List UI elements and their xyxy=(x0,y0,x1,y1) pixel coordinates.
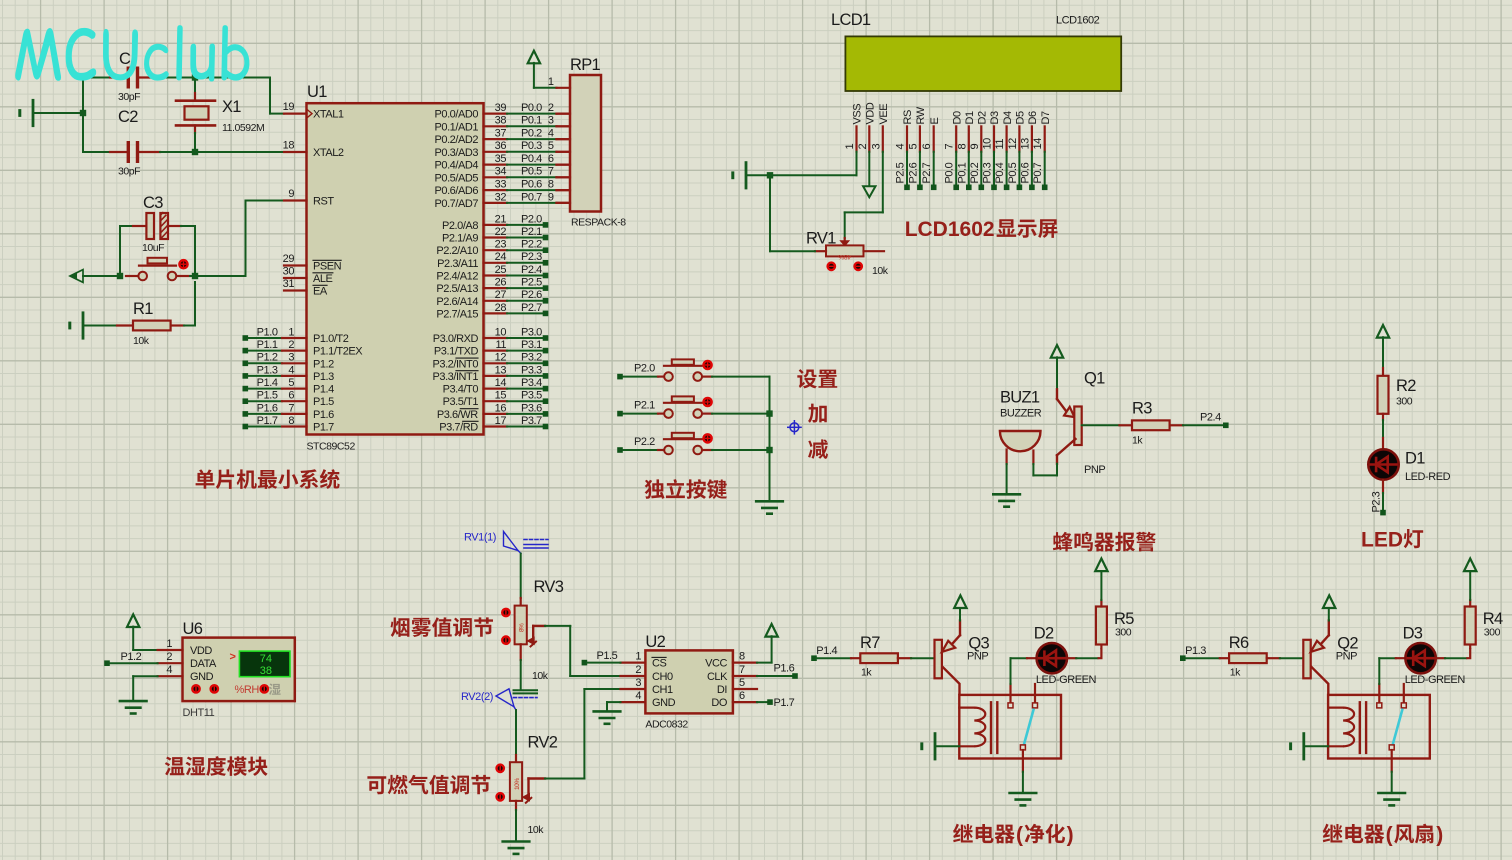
svg-text:27: 27 xyxy=(495,289,507,301)
wire P1.5 to U2 CS xyxy=(582,660,588,666)
svg-text:4: 4 xyxy=(548,128,554,140)
svg-text:P2.6: P2.6 xyxy=(907,162,919,183)
label jian xyxy=(808,439,828,459)
wire node E to RST riser xyxy=(195,275,246,277)
svg-text:1k: 1k xyxy=(861,667,872,679)
svg-text:P3.5/T1: P3.5/T1 xyxy=(443,396,479,408)
svg-text:Q1: Q1 xyxy=(1084,370,1105,388)
transistor Q3 PNP xyxy=(935,640,942,679)
resistor R5 300 xyxy=(1100,645,1102,649)
svg-text:30pF: 30pF xyxy=(118,91,140,103)
Q2 collector to relay xyxy=(1311,666,1329,695)
svg-text:P2.3/A11: P2.3/A11 xyxy=(437,258,478,270)
svg-text:VSS: VSS xyxy=(852,104,864,125)
svg-text:P2.1: P2.1 xyxy=(634,400,655,412)
svg-text:P3.0: P3.0 xyxy=(521,326,542,338)
svg-text:6: 6 xyxy=(548,153,554,165)
power arrow for U6 xyxy=(127,614,139,627)
wire R2 to D1 xyxy=(1382,420,1384,438)
RV3 interactive dots xyxy=(502,609,509,616)
svg-text:P2.5: P2.5 xyxy=(521,277,542,289)
ground GND1 xyxy=(32,100,35,125)
svg-text:C2: C2 xyxy=(118,108,138,126)
svg-text:EA: EA xyxy=(313,286,328,298)
svg-text:33: 33 xyxy=(495,179,507,191)
svg-text:4: 4 xyxy=(635,690,641,702)
wire R7 to Q3 base xyxy=(911,657,935,659)
svg-text:P0.6: P0.6 xyxy=(521,179,542,191)
svg-text:P1.3: P1.3 xyxy=(257,364,278,376)
wire P1.4 input xyxy=(811,655,817,661)
wire node B to XTAL1 corner xyxy=(195,77,270,79)
svg-text:2: 2 xyxy=(166,651,172,663)
label shezhi xyxy=(797,369,837,388)
svg-text:P0.7/AD7: P0.7/AD7 xyxy=(435,198,479,210)
svg-text:10k: 10k xyxy=(133,335,150,347)
svg-text:10: 10 xyxy=(495,326,507,338)
U1 pin 18 XTAL2 xyxy=(284,151,307,153)
RV1 interactive dots xyxy=(828,263,835,270)
svg-text:P2.4/A12: P2.4/A12 xyxy=(436,271,478,283)
svg-text:10k: 10k xyxy=(872,265,889,277)
svg-text:P0.3: P0.3 xyxy=(521,140,542,152)
push button P2.1 xyxy=(617,411,623,417)
IC U1 STC89C52 body xyxy=(307,103,484,434)
svg-text:2: 2 xyxy=(635,664,641,676)
svg-text:18: 18 xyxy=(283,139,295,151)
svg-text:1: 1 xyxy=(288,326,294,338)
relay box xyxy=(959,695,1061,759)
svg-text:RP1: RP1 xyxy=(570,56,601,74)
svg-text:X1: X1 xyxy=(222,98,241,116)
svg-text:12: 12 xyxy=(1007,138,1019,150)
svg-text:21: 21 xyxy=(495,213,507,225)
svg-text:P3.4: P3.4 xyxy=(521,377,542,389)
power arrow for R2 xyxy=(1377,325,1389,338)
wire U6 GND to ground xyxy=(133,675,157,677)
wire gnd1 to node A xyxy=(33,112,83,114)
svg-text:P1.4: P1.4 xyxy=(257,377,278,389)
label yanwuzhi tiaojie xyxy=(391,617,493,637)
relay common to ground xyxy=(1022,750,1024,772)
svg-text:P3.2: P3.2 xyxy=(521,352,542,364)
svg-text:P3.0/RXD: P3.0/RXD xyxy=(433,333,479,345)
svg-text:RST: RST xyxy=(313,196,334,208)
wire P1.2 to U6 DATA xyxy=(104,660,110,666)
svg-text:GND: GND xyxy=(652,697,676,709)
svg-text:P2.1: P2.1 xyxy=(521,226,542,238)
svg-text:P1.6: P1.6 xyxy=(257,402,278,414)
svg-text:P3.3: P3.3 xyxy=(521,364,542,376)
svg-text:P2.6/A14: P2.6/A14 xyxy=(436,296,478,308)
svg-text:P1.0: P1.0 xyxy=(257,326,278,338)
svg-text:U6: U6 xyxy=(183,620,203,638)
svg-text:P1.4: P1.4 xyxy=(816,645,837,657)
svg-text:2: 2 xyxy=(288,339,294,351)
relay common to ground xyxy=(1391,750,1393,772)
svg-text:ADC0832: ADC0832 xyxy=(645,719,688,731)
svg-text:4: 4 xyxy=(895,144,907,150)
U2 pin 6 DO xyxy=(733,701,757,703)
LCD VDD wire to power xyxy=(868,152,870,187)
U6 display xyxy=(239,651,290,677)
svg-text:P3.2/: P3.2/ xyxy=(433,358,458,370)
svg-text:U2: U2 xyxy=(645,633,665,651)
wire D2 to R5 xyxy=(1067,657,1076,659)
svg-text:38: 38 xyxy=(260,665,272,677)
label duli anjian xyxy=(645,479,727,499)
node E junction xyxy=(192,273,198,279)
wire top rail to C1 xyxy=(83,77,110,79)
capacitor C1 xyxy=(110,76,127,78)
wire RV2 bottom to ground xyxy=(515,810,517,840)
label jia xyxy=(808,404,827,423)
U2 pin 7 CLK xyxy=(733,675,757,677)
RP1 pins 2-9 xyxy=(557,112,571,114)
svg-text:P2.0: P2.0 xyxy=(634,363,655,375)
svg-text:6: 6 xyxy=(921,144,933,150)
buzzer pins xyxy=(1005,450,1007,465)
svg-text:P0.2: P0.2 xyxy=(969,162,981,183)
RP1 pin 1 xyxy=(557,87,571,89)
svg-text:32: 32 xyxy=(495,191,507,203)
svg-text:%RH: %RH xyxy=(235,684,260,696)
svg-text:P2.7: P2.7 xyxy=(521,302,542,314)
svg-text:P2.4: P2.4 xyxy=(521,264,542,276)
svg-text:8: 8 xyxy=(739,651,745,663)
svg-text:3: 3 xyxy=(548,115,554,127)
U1 pin 30 ALE xyxy=(284,277,307,279)
U6 pin 2 DATA xyxy=(158,662,183,664)
push button P2.0 xyxy=(617,374,623,380)
label keranqizhi tiaojie xyxy=(367,775,490,795)
svg-text:36: 36 xyxy=(495,140,507,152)
buttons common wire xyxy=(769,377,771,502)
svg-text:CH0: CH0 xyxy=(652,671,673,683)
svg-text:RV2: RV2 xyxy=(528,734,558,752)
svg-text:PNP: PNP xyxy=(1336,651,1357,663)
svg-text:3: 3 xyxy=(870,144,882,150)
potentiometer RV1 10k xyxy=(844,238,846,245)
svg-text:8: 8 xyxy=(548,179,554,191)
origin marker xyxy=(787,420,802,435)
svg-text:28: 28 xyxy=(495,302,507,314)
wire U2 DO to P1.7 xyxy=(757,701,768,703)
crystal X1 xyxy=(194,78,196,94)
svg-text:P2.3: P2.3 xyxy=(521,251,542,263)
RV3 wiper xyxy=(532,626,534,641)
svg-text:5: 5 xyxy=(548,140,554,152)
svg-text:D3: D3 xyxy=(1403,625,1423,643)
svg-text:10uF: 10uF xyxy=(142,242,164,254)
svg-text:P1.7: P1.7 xyxy=(774,697,795,709)
svg-text:P1.5: P1.5 xyxy=(597,650,618,662)
svg-text:LED-GREEN: LED-GREEN xyxy=(1405,674,1466,686)
power arrow for R4 xyxy=(1469,571,1471,600)
wire C2 to node C xyxy=(160,151,195,153)
svg-text:P2.7: P2.7 xyxy=(921,162,933,183)
svg-text:WR: WR xyxy=(460,409,478,421)
svg-text:ALE: ALE xyxy=(313,273,333,285)
svg-text:P0.3: P0.3 xyxy=(982,162,994,183)
svg-text:P1.1: P1.1 xyxy=(257,339,278,351)
relay coil xyxy=(959,706,974,708)
svg-text:P1.6: P1.6 xyxy=(313,409,334,421)
buzzer BUZ1 xyxy=(1000,431,1041,451)
U1 pin 19 XTAL1 xyxy=(284,112,307,114)
svg-text:R7: R7 xyxy=(860,634,880,652)
U2 pin 1 CS xyxy=(621,661,646,663)
transistor Q2 PNP xyxy=(1303,640,1310,679)
potentiometer RV2 10k xyxy=(510,762,522,801)
U6 pin 1 VDD xyxy=(158,649,183,651)
svg-text:P0.4: P0.4 xyxy=(521,153,542,165)
svg-text:6: 6 xyxy=(739,690,745,702)
svg-text:P2.1/A9: P2.1/A9 xyxy=(442,233,478,245)
svg-text:6: 6 xyxy=(288,390,294,402)
svg-text:XTAL2: XTAL2 xyxy=(313,147,344,159)
svg-text:35: 35 xyxy=(495,153,507,165)
svg-text:P3.7/: P3.7/ xyxy=(439,422,464,434)
svg-text:PSEN: PSEN xyxy=(313,261,342,273)
wire C3 left down xyxy=(119,226,121,276)
svg-text:48%: 48% xyxy=(838,253,851,260)
svg-text:P3.5: P3.5 xyxy=(521,390,542,402)
U6 pin 4 GND xyxy=(158,675,183,677)
svg-text:U1: U1 xyxy=(307,83,327,101)
U1 pin 29 PSEN xyxy=(284,264,307,266)
MCUclub logo xyxy=(15,12,249,81)
svg-text:P3.1/TXD: P3.1/TXD xyxy=(434,346,479,358)
svg-text:(: ( xyxy=(1386,824,1393,847)
svg-text:9: 9 xyxy=(288,188,294,200)
svg-text:7: 7 xyxy=(548,166,554,178)
wire terminal to RV3 xyxy=(520,554,522,599)
svg-text:D2: D2 xyxy=(977,111,989,124)
capacitor C2 xyxy=(83,151,110,153)
svg-text:C3: C3 xyxy=(143,194,163,212)
svg-text:22: 22 xyxy=(495,226,507,238)
relay coil ground wire xyxy=(934,734,937,759)
power arrow for Q3 xyxy=(959,607,961,621)
svg-text:P2.2/A10: P2.2/A10 xyxy=(436,245,478,257)
svg-text:2: 2 xyxy=(857,144,869,150)
RV2 interactive dots xyxy=(497,765,504,772)
svg-text:INT0: INT0 xyxy=(456,358,478,370)
svg-text:): ) xyxy=(1436,824,1443,847)
svg-text:1: 1 xyxy=(548,76,554,88)
relay core xyxy=(1359,702,1361,753)
svg-text:300: 300 xyxy=(1396,396,1413,408)
svg-text:11: 11 xyxy=(495,339,506,351)
IC U2 ADC0832 body xyxy=(645,650,733,713)
wire node C to XTAL2 pin xyxy=(195,151,284,153)
svg-text:10k: 10k xyxy=(528,824,545,836)
resistor pack RP1 RESPACK-8 xyxy=(570,75,601,212)
svg-text:P0.2/AD2: P0.2/AD2 xyxy=(435,134,479,146)
svg-text:14: 14 xyxy=(1032,138,1044,150)
svg-text:P1.2: P1.2 xyxy=(257,352,278,364)
label jidianqi jinghua xyxy=(953,824,1015,844)
LED D2 LED-GREEN xyxy=(1010,658,1012,684)
svg-text:19: 19 xyxy=(283,101,295,113)
relay coil ground wire xyxy=(1302,734,1305,759)
svg-text:5: 5 xyxy=(739,677,745,689)
label jidianqi fengshan xyxy=(1323,824,1385,844)
RV2 wiper xyxy=(527,779,529,798)
svg-text:23: 23 xyxy=(495,239,507,251)
svg-text:CH1: CH1 xyxy=(652,684,673,696)
svg-text:P2.4: P2.4 xyxy=(1200,412,1221,424)
ground GND5 xyxy=(993,493,1020,496)
svg-text:D7: D7 xyxy=(1040,111,1052,124)
svg-text:P0.0/AD0: P0.0/AD0 xyxy=(435,109,479,121)
svg-text:1k: 1k xyxy=(1132,435,1143,447)
svg-text:P0.7: P0.7 xyxy=(521,191,542,203)
svg-text:11.0592M: 11.0592M xyxy=(222,122,264,134)
svg-text:DO: DO xyxy=(711,697,727,709)
ground GND7 xyxy=(503,840,530,843)
svg-text:D1: D1 xyxy=(964,111,976,124)
svg-text:LED: LED xyxy=(1361,529,1403,552)
push button P2.2 xyxy=(617,447,623,453)
svg-text:P3.6/: P3.6/ xyxy=(437,409,462,421)
svg-text:74: 74 xyxy=(260,653,272,665)
svg-text:1: 1 xyxy=(844,144,856,150)
LCD VEE wire to RV1 wiper xyxy=(882,152,884,213)
svg-text:XTAL1: XTAL1 xyxy=(313,109,344,121)
svg-text:17: 17 xyxy=(495,415,507,427)
svg-text:1: 1 xyxy=(635,651,641,663)
svg-text:3: 3 xyxy=(288,352,294,364)
svg-text:D4: D4 xyxy=(1002,111,1014,124)
svg-text:P1.5: P1.5 xyxy=(313,396,334,408)
wire button to node E xyxy=(190,275,195,277)
svg-text:P1.2: P1.2 xyxy=(313,358,334,370)
svg-text:7: 7 xyxy=(944,144,956,150)
power arrow for Q1 xyxy=(1051,345,1063,358)
svg-text:P1.7: P1.7 xyxy=(257,415,278,427)
svg-text:39: 39 xyxy=(495,102,507,114)
svg-text:29: 29 xyxy=(283,253,295,265)
svg-text:P3.6: P3.6 xyxy=(521,402,542,414)
svg-text:9: 9 xyxy=(548,191,554,203)
svg-text:VDD: VDD xyxy=(190,645,212,657)
relay contact pins xyxy=(1378,684,1380,702)
svg-text:9: 9 xyxy=(969,144,981,150)
svg-text:7: 7 xyxy=(288,402,294,414)
power arrow for R5 xyxy=(1100,571,1102,600)
resistor R7 1k xyxy=(851,657,860,659)
svg-text:RD: RD xyxy=(463,422,478,434)
svg-text:P2.7/A15: P2.7/A15 xyxy=(436,308,478,320)
svg-text:P1.5: P1.5 xyxy=(257,390,278,402)
wire R1 to node E xyxy=(194,282,196,326)
svg-text:38: 38 xyxy=(495,115,507,127)
wire U2 GND to ground xyxy=(607,701,621,703)
U1 pin 9 RST xyxy=(284,199,307,201)
U2 pin 3 CH1 xyxy=(621,688,646,690)
svg-text:RESPACK-8: RESPACK-8 xyxy=(571,217,626,229)
left arrow terminal xyxy=(70,270,83,283)
wire RV2 wiper to U2 CH1 xyxy=(545,778,584,780)
relay contact pins xyxy=(1009,684,1011,702)
svg-text:P1.3: P1.3 xyxy=(1185,645,1206,657)
push button RESET xyxy=(126,275,137,277)
svg-text:P2.3: P2.3 xyxy=(1371,491,1383,512)
wire buzzer to ground xyxy=(1006,464,1008,493)
svg-text:VDD: VDD xyxy=(865,102,877,124)
svg-text:P0.3/AD3: P0.3/AD3 xyxy=(435,147,479,159)
wire R6 to Q2 base xyxy=(1280,657,1304,659)
wire C3 right down xyxy=(194,226,196,276)
svg-text:P2.0/A8: P2.0/A8 xyxy=(442,220,478,232)
svg-text:8: 8 xyxy=(288,415,294,427)
svg-text:30: 30 xyxy=(283,266,295,278)
LCD1602 screen xyxy=(845,36,1121,91)
svg-text:CS: CS xyxy=(652,658,666,670)
svg-text:4: 4 xyxy=(166,664,172,676)
svg-text:P2.5/A13: P2.5/A13 xyxy=(436,283,478,295)
svg-text:P1.7: P1.7 xyxy=(313,422,334,434)
svg-text:24: 24 xyxy=(495,251,507,263)
svg-text:P3.1: P3.1 xyxy=(521,339,542,351)
svg-text:P3.4/T0: P3.4/T0 xyxy=(443,384,479,396)
svg-text:P2.5: P2.5 xyxy=(895,162,907,183)
resistor R6 1k xyxy=(1220,657,1229,659)
svg-text:D2: D2 xyxy=(1034,625,1054,643)
svg-text:C: C xyxy=(119,50,131,68)
svg-text:7: 7 xyxy=(739,664,745,676)
svg-text:D5: D5 xyxy=(1015,111,1027,124)
ground GND8 xyxy=(594,710,621,713)
svg-text:P1.6: P1.6 xyxy=(774,663,795,675)
svg-text:STC89C52: STC89C52 xyxy=(307,441,356,453)
svg-text:30pF: 30pF xyxy=(118,166,140,178)
svg-text:P2.2: P2.2 xyxy=(634,436,655,448)
svg-text:11: 11 xyxy=(994,139,1006,150)
U1 pin 31 EA xyxy=(284,289,307,291)
svg-text:INT1: INT1 xyxy=(456,371,478,383)
svg-text:LED-RED: LED-RED xyxy=(1405,471,1451,483)
svg-text:15: 15 xyxy=(495,390,507,402)
wire C1 to crystal node B xyxy=(160,77,195,79)
svg-text:26: 26 xyxy=(495,277,507,289)
svg-text:P3.3/: P3.3/ xyxy=(433,371,458,383)
resistor R3 1k xyxy=(1120,424,1133,426)
svg-text:P0.5/AD5: P0.5/AD5 xyxy=(435,172,479,184)
power arrow for Q2 xyxy=(1328,607,1330,621)
svg-text:P0.4: P0.4 xyxy=(994,162,1006,183)
svg-text:VEE: VEE xyxy=(878,104,890,125)
svg-text:1: 1 xyxy=(166,638,172,650)
svg-text:P1.2: P1.2 xyxy=(121,651,142,663)
LCD VSS wire to ground xyxy=(856,152,858,176)
svg-text:R6: R6 xyxy=(1229,634,1249,652)
svg-text:P0.0: P0.0 xyxy=(521,102,542,114)
svg-text:E: E xyxy=(929,118,941,125)
svg-text:D3: D3 xyxy=(989,111,1001,124)
wire D3 to R4 xyxy=(1436,657,1445,659)
svg-text:CLK: CLK xyxy=(707,671,728,683)
resistor R4 300 xyxy=(1469,645,1471,649)
svg-text:P2.0: P2.0 xyxy=(521,213,542,225)
button interactive dot xyxy=(179,260,187,268)
relay core xyxy=(990,702,992,753)
sensor U6 DHT11 body xyxy=(183,638,295,702)
U2 pin 5 DI xyxy=(733,688,757,690)
label fengmingqi baojing xyxy=(1053,532,1156,552)
